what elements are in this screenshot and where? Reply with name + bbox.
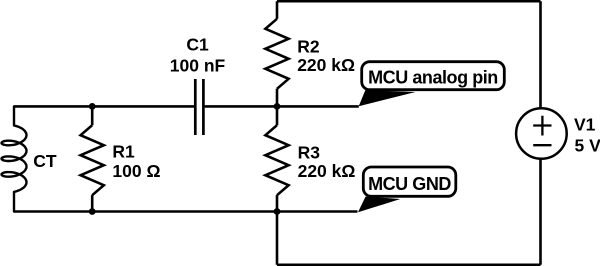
resistor R2	[265, 19, 288, 89]
wire R2 pins	[276, 1, 279, 106]
wire top rail	[277, 0, 541, 3]
wire R3 to bottom rail	[276, 212, 279, 265]
capacitor C1	[195, 79, 203, 135]
wire right rail lower	[539, 159, 542, 265]
V1 plus sign	[533, 116, 551, 136]
node dot left-lower junction	[89, 208, 96, 215]
callout box MCU GND	[363, 167, 456, 196]
svg-text:MCU analog pin: MCU analog pin	[368, 68, 498, 88]
node dot center-mid junction	[274, 103, 281, 110]
callout box MCU analog pin	[362, 62, 505, 90]
node dot left-mid junction	[89, 103, 96, 110]
svg-text:V1: V1	[574, 114, 596, 134]
wire lower horizontal	[14, 210, 358, 213]
wire R3 pins	[276, 106, 279, 211]
svg-text:C1: C1	[186, 35, 209, 55]
V1 minus sign	[533, 144, 551, 146]
wire middle horizontal right of C1	[205, 105, 359, 108]
wire right rail upper	[539, 1, 542, 109]
voltage source V1	[516, 108, 567, 159]
callout tail MCU GND	[358, 197, 400, 213]
svg-text:MCU GND: MCU GND	[368, 174, 451, 194]
wire bottom rail	[277, 263, 541, 266]
svg-text:R1: R1	[112, 141, 135, 161]
svg-text:100 nF: 100 nF	[170, 56, 226, 76]
svg-text:100 Ω: 100 Ω	[112, 161, 160, 181]
svg-text:R2: R2	[297, 36, 320, 56]
callout tail MCU analog pin	[359, 90, 416, 106]
svg-text:5 V: 5 V	[575, 136, 600, 156]
svg-text:CT: CT	[33, 151, 57, 171]
svg-text:R3: R3	[298, 143, 321, 163]
resistor R3	[265, 125, 288, 195]
inductor CT	[2, 106, 27, 211]
node dot center-lower junction	[274, 208, 281, 215]
svg-text:220 kΩ: 220 kΩ	[297, 55, 355, 75]
wire middle horizontal	[14, 105, 194, 108]
resistor R1	[81, 125, 104, 195]
svg-text:220 kΩ: 220 kΩ	[298, 161, 356, 181]
wire R1 pins	[91, 106, 94, 211]
